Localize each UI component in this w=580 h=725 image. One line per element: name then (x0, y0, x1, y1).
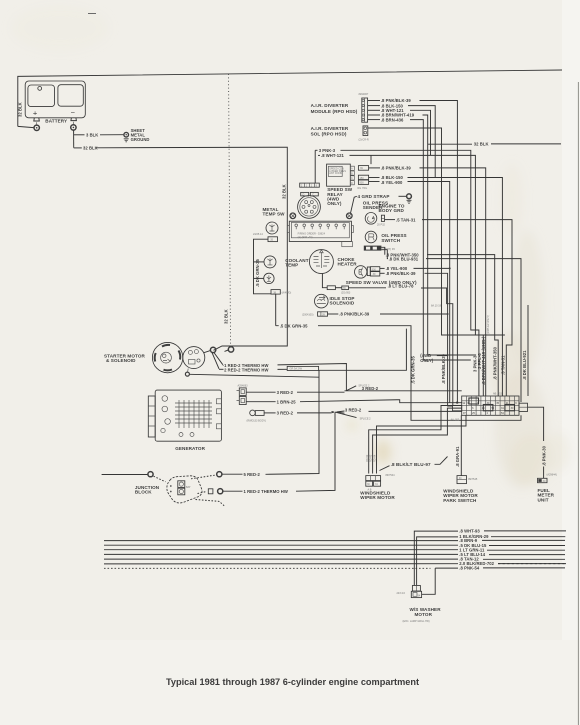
svg-text:A4 .302: A4 .302 (451, 419, 460, 422)
svg-text:(EXC. LAMP GRILL HD): (EXC. LAMP GRILL HD) (403, 620, 430, 623)
svg-text:3 RED-2: 3 RED-2 (362, 386, 379, 391)
svg-text:3 BLK: 3 BLK (86, 133, 98, 138)
svg-text:1 RED-2 THERMO HW: 1 RED-2 THERMO HW (244, 489, 288, 494)
svg-text:.5 DK GRN-35: .5 DK GRN-35 (255, 259, 260, 287)
svg-text:RD-93: RD-93 (370, 454, 373, 462)
svg-text:.5 TAN-31: .5 TAN-31 (396, 217, 416, 222)
svg-text:.8 PNK/BLK-39: .8 PNK/BLK-39 (381, 166, 412, 171)
svg-text:MOTOR: MOTOR (415, 612, 433, 617)
svg-text:(1985 1/2 ONLY): (1985 1/2 ONLY) (487, 315, 490, 334)
svg-text:20 P32: 20 P32 (377, 223, 386, 226)
svg-text:(A/4WD): (A/4WD) (282, 292, 292, 295)
svg-text:.8 YEL-900: .8 YEL-900 (381, 180, 403, 185)
svg-text:32 BLK: 32 BLK (474, 142, 489, 147)
svg-text:PARK SWITCH: PARK SWITCH (443, 498, 477, 503)
svg-text:.8 WHT-121: .8 WHT-121 (321, 153, 344, 158)
svg-text:.8 BRN-436: .8 BRN-436 (381, 117, 404, 122)
svg-text:GENERATOR: GENERATOR (175, 446, 205, 451)
svg-text:SPEED SW VALVE (4WD ONLY): SPEED SW VALVE (4WD ONLY) (346, 280, 417, 285)
svg-text:89/7544: 89/7544 (386, 474, 396, 477)
svg-text:ONLY): ONLY) (420, 358, 433, 363)
svg-text:(A) (RWL-30): (A) (RWL-30) (298, 236, 313, 239)
svg-text:D: D (303, 193, 305, 196)
svg-text:.8 BLK/LT BLU-97: .8 BLK/LT BLU-97 (391, 462, 431, 467)
svg-text:BAT: BAT (186, 486, 191, 489)
svg-text:3 RED-2: 3 RED-2 (277, 411, 294, 416)
svg-text:.8 PNK/BLK-39: .8 PNK/BLK-39 (386, 271, 417, 276)
svg-text:MODULE (RPO HSD): MODULE (RPO HSD) (311, 109, 358, 114)
svg-text:1 BRN-25: 1 BRN-25 (277, 399, 297, 404)
svg-text:.5 DK GRN-35: .5 DK GRN-35 (411, 356, 416, 384)
svg-text:.8 PNK-54: .8 PNK-54 (459, 566, 480, 571)
svg-text:#294067: #294067 (359, 93, 369, 96)
svg-text:SOL (RPO HSD): SOL (RPO HSD) (311, 132, 347, 137)
svg-text:8A.10 19: 8A.10 19 (431, 304, 442, 307)
svg-text:.8 GRA-91: .8 GRA-91 (455, 446, 460, 467)
svg-text:.8 WHT-93: .8 WHT-93 (459, 529, 480, 534)
svg-text:.8 DK BLU-921: .8 DK BLU-921 (522, 350, 527, 380)
svg-text:ONLY): ONLY) (327, 201, 342, 206)
svg-text:.5 TAN-31: .5 TAN-31 (500, 355, 505, 375)
svg-text:GR.5A 2/W: GR.5A 2/W (290, 368, 303, 371)
svg-text:3 RED-2: 3 RED-2 (345, 408, 362, 413)
svg-text:RD-92: RD-92 (366, 454, 369, 462)
svg-text:ANT CONN: ANT CONN (329, 172, 342, 175)
svg-text:32 BLK: 32 BLK (223, 309, 228, 324)
svg-text:SWITCH: SWITCH (381, 238, 400, 243)
svg-text:TEMP: TEMP (285, 262, 298, 267)
svg-text:900: 900 (372, 268, 377, 271)
svg-text:+: + (33, 109, 38, 118)
svg-text:(RWD133 BODY): (RWD133 BODY) (247, 420, 267, 423)
svg-text:& SOLENOID: & SOLENOID (106, 358, 136, 363)
svg-text:AB .353: AB .353 (493, 393, 503, 396)
svg-text:A.I.R. DIVERTER: A.I.R. DIVERTER (311, 126, 349, 131)
svg-text:2 RED-2 THERMO HW: 2 RED-2 THERMO HW (224, 367, 268, 372)
svg-text:RG 7WL: RG 7WL (358, 187, 368, 190)
svg-text:24/25.14: 24/25.14 (253, 233, 263, 236)
svg-text:A294063: A294063 (238, 385, 249, 388)
svg-text:RD-94: RD-94 (374, 454, 377, 462)
svg-text:SENDER: SENDER (363, 205, 383, 210)
svg-text:UNIT: UNIT (538, 497, 549, 502)
svg-text:89/7545: 89/7545 (468, 478, 478, 481)
svg-text:4 GRD STRAP: 4 GRD STRAP (358, 194, 390, 199)
svg-text:BATTERY: BATTERY (45, 118, 67, 123)
svg-text:.8 DK BLU-931: .8 DK BLU-931 (389, 256, 419, 261)
svg-text:GROUND: GROUND (131, 137, 150, 142)
svg-text:C: C (351, 177, 353, 180)
svg-text:(A29644): (A29644) (547, 473, 557, 476)
svg-text:HEATER: HEATER (338, 262, 358, 267)
svg-text:(2)-CR-R: (2)-CR-R (359, 138, 369, 141)
svg-text:(2004100): (2004100) (302, 313, 314, 316)
svg-text:32 BLK: 32 BLK (18, 102, 23, 117)
svg-text:Typical 1981 through 1987 6-cy: Typical 1981 through 1987 6-cylinder eng… (166, 677, 419, 687)
svg-text:SOLENOID: SOLENOID (330, 301, 355, 306)
svg-text:(20) 953: (20) 953 (341, 291, 351, 294)
svg-text:SPLICE 2: SPLICE 2 (360, 418, 372, 421)
svg-text:3 RED-2: 3 RED-2 (277, 390, 294, 395)
svg-text:TEMP SW: TEMP SW (263, 212, 286, 217)
svg-text:150: 150 (360, 177, 365, 180)
svg-text:24/3 16: 24/3 16 (397, 592, 406, 595)
svg-text:32 BLK: 32 BLK (83, 146, 98, 151)
svg-text:.5 DK GRN-35: .5 DK GRN-35 (280, 323, 308, 328)
svg-text:D: D (351, 182, 353, 185)
svg-text:900: 900 (360, 182, 365, 185)
svg-text:32 BLK: 32 BLK (281, 184, 286, 199)
svg-text:.8 BRN/WHT-419 (1985-): .8 BRN/WHT-419 (1985-) (481, 336, 486, 385)
svg-text:5 RED-2: 5 RED-2 (244, 472, 261, 477)
svg-text:BLOCK: BLOCK (135, 490, 152, 495)
svg-text:.8 PNK-30: .8 PNK-30 (542, 445, 547, 466)
svg-text:A.I.R. DIVERTER: A.I.R. DIVERTER (311, 103, 349, 108)
svg-text:.8 PNK/BLK-39: .8 PNK/BLK-39 (339, 312, 370, 317)
svg-text:−: − (71, 108, 76, 117)
svg-text:WIPER MOTOR: WIPER MOTOR (360, 495, 395, 500)
svg-text:.8 PNK/BLK-39: .8 PNK/BLK-39 (441, 353, 446, 384)
svg-text:.8 PNK/WHT-350: .8 PNK/WHT-350 (492, 346, 497, 380)
